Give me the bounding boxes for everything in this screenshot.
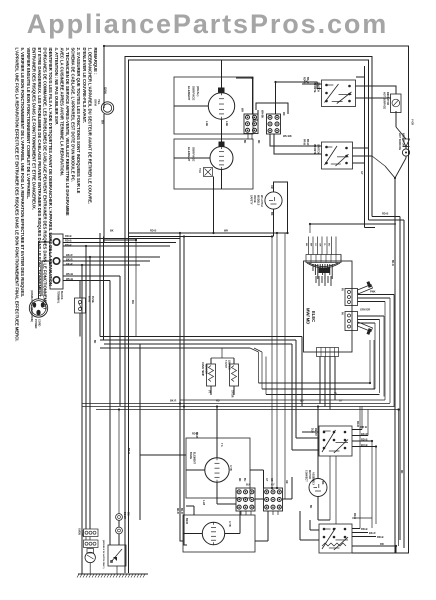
wire SU1 to CN2 link bbox=[256, 103, 288, 114]
svg-text:WH-B: WH-B bbox=[66, 277, 73, 281]
svg-text:BU: BU bbox=[243, 478, 245, 482]
svg-text:PR-B: PR-B bbox=[303, 139, 306, 145]
svg-text:RD: RD bbox=[380, 542, 384, 546]
svg-text:GRN/: GRN/ bbox=[94, 99, 98, 106]
svg-text:GRN: GRN bbox=[104, 87, 108, 94]
board fan-in arcs bbox=[307, 263, 340, 268]
svg-text:ASSEMBLY: ASSEMBLY bbox=[312, 472, 315, 485]
door latch switch S3 bbox=[108, 545, 126, 566]
svg-text:BK: BK bbox=[309, 505, 311, 509]
svg-text:MOTOR: MOTOR bbox=[308, 470, 311, 479]
wire broil leads bbox=[183, 533, 202, 535]
wire verticals below board bbox=[319, 357, 321, 404]
wire mid long verticals to oven grids bbox=[271, 237, 273, 489]
wire broil right link bbox=[255, 540, 268, 542]
svg-text:BK-R: BK-R bbox=[170, 400, 176, 403]
wire top/right/bottom main loop L1 bbox=[104, 46, 409, 553]
svg-text:OR: OR bbox=[285, 480, 287, 484]
svg-text:RD-B: RD-B bbox=[356, 421, 359, 427]
svg-text:BK-R: BK-R bbox=[306, 139, 309, 145]
indicator lamp D1 bbox=[403, 139, 410, 147]
svg-text:RD-B: RD-B bbox=[303, 77, 306, 83]
wire run y233 pair bbox=[129, 232, 288, 234]
svg-text:BU: BU bbox=[328, 243, 330, 247]
svg-text:WH-BK: WH-BK bbox=[261, 110, 264, 119]
svg-text:BK: BK bbox=[321, 481, 324, 485]
svg-text:ELEMENT: ELEMENT bbox=[187, 147, 191, 162]
svg-text:(MODELS W/ LATCH ONLY): (MODELS W/ LATCH ONLY) bbox=[102, 540, 105, 569]
svg-text:BR-B: BR-B bbox=[185, 518, 188, 524]
wire left drop bundle bbox=[85, 246, 87, 529]
oven switch SB1 bbox=[319, 426, 352, 456]
convection motor M1 bbox=[309, 479, 327, 497]
thermal limiter TL1 bbox=[204, 168, 213, 177]
svg-text:OVEN: OVEN bbox=[78, 528, 81, 535]
svg-text:TERMINAL: TERMINAL bbox=[57, 291, 60, 304]
wire diagonal bends bbox=[250, 348, 259, 352]
control board U1 MW/MD ELEC bbox=[304, 261, 353, 352]
svg-text:SWITCH: SWITCH bbox=[317, 82, 320, 92]
svg-text:HOT SURFACE: HOT SURFACE bbox=[383, 92, 386, 110]
svg-text:D'ORGANES DE COMMANDE. LES PRO: D'ORGANES DE COMMANDE. LES PROBLEMES DE … bbox=[43, 48, 48, 310]
svg-text:L2B: L2B bbox=[225, 121, 229, 126]
wire console right verticals bbox=[371, 120, 373, 217]
wires from RC1 RC2 to right bbox=[358, 294, 395, 296]
svg-text:BU: BU bbox=[300, 400, 304, 403]
svg-text:BLOCK: BLOCK bbox=[60, 291, 63, 300]
board bottom terminal strip bbox=[317, 348, 339, 357]
wire SB1 right stubs and labels bbox=[352, 429, 362, 431]
wire vertical x136 bbox=[135, 240, 137, 337]
wire bundle bends down bbox=[309, 224, 311, 233]
wire SB2 right stubs bbox=[352, 528, 360, 530]
svg-text:SURFACE: SURFACE bbox=[192, 86, 196, 100]
wire SV1 bottom bbox=[273, 209, 275, 236]
svg-text:BK: BK bbox=[270, 212, 273, 216]
svg-text:4-LB: 4-LB bbox=[202, 500, 205, 505]
infinite switch SW2 bbox=[322, 142, 353, 169]
svg-text:SAFETY: SAFETY bbox=[250, 195, 253, 205]
svg-text:WH: WH bbox=[241, 108, 244, 112]
wire mid verticals x292 bbox=[291, 344, 293, 406]
oven lamp connectors bbox=[84, 529, 99, 537]
bake element box bbox=[186, 438, 250, 498]
oven switch SB2 bbox=[319, 524, 352, 553]
wire left vertical GRN bbox=[103, 46, 105, 108]
wire merge diagonals into x395 bbox=[395, 158, 406, 178]
wire ground bar links bbox=[81, 573, 83, 574]
svg-text:AppliancePartsPros.com: AppliancePartsPros.com bbox=[27, 9, 388, 39]
svg-text:RD-B: RD-B bbox=[361, 438, 368, 442]
svg-text:VALVE: VALVE bbox=[253, 195, 256, 203]
svg-text:DOOR: DOOR bbox=[123, 512, 125, 519]
svg-text:SENSOR: SENSOR bbox=[204, 364, 207, 374]
wire TB to power cord bbox=[39, 242, 51, 299]
svg-text:BK-R: BK-R bbox=[66, 253, 73, 257]
wire band verticals feed bbox=[258, 352, 260, 383]
svg-text:BK-R: BK-R bbox=[361, 432, 368, 436]
wire SB2 left bbox=[310, 529, 319, 531]
thermal fuse R2 bbox=[230, 364, 239, 386]
svg-text:RD B: RD B bbox=[361, 425, 367, 429]
ground connector GRN/YEL cabinet bbox=[101, 102, 113, 114]
svg-text:WH: WH bbox=[224, 230, 228, 233]
wire SB1 left bbox=[302, 431, 319, 433]
junction dots bbox=[103, 45, 105, 47]
wire HSI1 bottom diagonal to indicator bbox=[395, 111, 397, 127]
surface element box E2 bbox=[174, 139, 253, 189]
svg-text:(CONDUIT D'ALIMENTATION): (CONDUIT D'ALIMENTATION) bbox=[30, 290, 33, 322]
wire bake box left bbox=[140, 454, 186, 456]
svg-text:OVEN TEMP: OVEN TEMP bbox=[201, 362, 204, 376]
svg-text:BK: BK bbox=[243, 140, 245, 144]
svg-text:LIMITER: LIMITER bbox=[227, 360, 230, 370]
bake element E3 bbox=[205, 458, 229, 482]
svg-text:INFINITE: INFINITE bbox=[313, 144, 316, 155]
svg-text:D'ENLEVER LE COUVRE-FILS AVANT: D'ENLEVER LE COUVRE-FILS AVANT. bbox=[82, 48, 87, 123]
svg-text:RD: RD bbox=[257, 140, 259, 144]
svg-text:MAXI: MAXI bbox=[88, 296, 91, 303]
wire E2 leads bbox=[221, 139, 223, 147]
wire bundle right horizontals bbox=[372, 216, 400, 218]
svg-text:C-YB: C-YB bbox=[228, 521, 230, 527]
wire bake bottom to grid bbox=[216, 498, 218, 504]
svg-text:SURFACE: SURFACE bbox=[192, 147, 196, 161]
svg-text:MW/ MD: MW/ MD bbox=[306, 308, 311, 324]
terminal block TB bbox=[50, 234, 63, 289]
svg-text:L1B: L1B bbox=[205, 121, 209, 126]
svg-text:RD-B: RD-B bbox=[361, 527, 368, 531]
svg-text:BK-R: BK-R bbox=[127, 448, 130, 454]
svg-text:YEL: YEL bbox=[97, 99, 101, 105]
svg-text:GY: GY bbox=[271, 484, 275, 487]
chassis ground bar bbox=[78, 573, 148, 575]
svg-text:REMARQUE :: REMARQUE : bbox=[93, 48, 98, 75]
svg-text:OR: OR bbox=[270, 185, 273, 189]
svg-text:GRY/OR: GRY/OR bbox=[360, 308, 370, 312]
svg-text:5. VERIFIER LE BON FONCTIONNEM: 5. VERIFIER LE BON FONCTIONNEMENT DE L'A… bbox=[20, 48, 25, 298]
svg-text:CONVECT: CONVECT bbox=[305, 470, 308, 482]
svg-text:BAKE: BAKE bbox=[189, 452, 192, 459]
svg-text:OR: OR bbox=[319, 243, 321, 247]
wire CN1 bottom stubs bbox=[247, 134, 249, 140]
svg-text:GY/OR: GY/OR bbox=[231, 390, 233, 398]
wire verticals x180 bbox=[180, 233, 183, 541]
svg-text:GY: GY bbox=[314, 243, 316, 247]
svg-text:RD: RD bbox=[216, 400, 220, 403]
wire TB right leads upper bbox=[63, 238, 180, 240]
svg-text:C-YB: C-YB bbox=[229, 465, 231, 471]
svg-text:WH-B: WH-B bbox=[66, 272, 73, 276]
svg-text:INDICATOR: INDICATOR bbox=[386, 92, 389, 105]
wire CN1 to E1 box bbox=[253, 119, 258, 121]
board right connector RC1 bbox=[345, 289, 358, 306]
svg-text:L'APPAREIL UNE FOIS LA REPARAT: L'APPAREIL UNE FOIS LA REPARATION EFFECT… bbox=[15, 48, 20, 342]
wire band y400-409 main bbox=[180, 399, 385, 401]
svg-text:RD-B: RD-B bbox=[150, 230, 156, 233]
board top terminal strip bbox=[306, 255, 341, 263]
svg-text:GY: GY bbox=[360, 171, 363, 175]
fuse F1 MAXI bbox=[75, 298, 86, 313]
svg-text:OR: OR bbox=[270, 478, 272, 482]
svg-text:ENTRAINER DES RISQUES DANS LE: ENTRAINER DES RISQUES DANS LE FONCTIONNE… bbox=[31, 48, 36, 210]
svg-text:RD-B: RD-B bbox=[65, 243, 72, 247]
svg-text:2. S'ASSURER QUE TOUTES LES FO: 2. S'ASSURER QUE TOUTES LES FONCTIONS SO… bbox=[76, 48, 81, 194]
svg-text:ELEMENT: ELEMENT bbox=[193, 452, 196, 464]
svg-text:(DUAL): (DUAL) bbox=[196, 86, 200, 96]
wire CN2 bottom stubs to SW2 bbox=[270, 134, 322, 146]
connector G2 bbox=[264, 488, 283, 511]
wire SB1 to SB2 bbox=[335, 456, 337, 524]
svg-text:VERIFIER ENSUITE LE BON FONCTI: VERIFIER ENSUITE LE BON FONCTIONNEMENT C… bbox=[26, 48, 31, 200]
svg-text:GY: GY bbox=[265, 478, 267, 482]
frame console boundary inner bbox=[129, 60, 369, 573]
svg-text:RD: RD bbox=[400, 470, 402, 474]
wire RC drops to lower band bbox=[393, 295, 395, 408]
svg-text:RD-B: RD-B bbox=[176, 508, 178, 514]
svg-text:7 A: 7 A bbox=[220, 443, 223, 447]
svg-text:POWER: POWER bbox=[34, 319, 37, 329]
svg-text:BU-B: BU-B bbox=[361, 443, 368, 447]
broil element E4 bbox=[202, 522, 224, 544]
board pin ticks bbox=[312, 264, 314, 271]
svg-text:RD: RD bbox=[238, 478, 240, 482]
svg-text:BK-R: BK-R bbox=[391, 260, 393, 266]
svg-text:BU: BU bbox=[246, 484, 250, 487]
wire run y240 bbox=[104, 239, 136, 241]
wire into SW1 bbox=[302, 83, 322, 85]
svg-text:FUSE: FUSE bbox=[91, 296, 94, 303]
svg-text:HOT SURFACE: HOT SURFACE bbox=[398, 133, 401, 151]
svg-text:CORD: CORD bbox=[38, 319, 41, 327]
surface element E1 (dual) bbox=[208, 93, 234, 119]
wire fuse leads bbox=[79, 289, 81, 298]
wire motor leads bbox=[317, 407, 319, 479]
wire TB right leads lower bbox=[63, 275, 120, 277]
broil element box bbox=[183, 515, 255, 552]
svg-text:4. ATTENTION : NE PAS OUBLIER: 4. ATTENTION : NE PAS OUBLIER SVP. bbox=[54, 48, 59, 125]
wire grid to broil stubs bbox=[240, 511, 242, 515]
svg-text:WH BK: WH BK bbox=[283, 134, 292, 138]
wire sensor tops bbox=[211, 357, 234, 359]
wire CN2 riser bbox=[276, 82, 322, 114]
wire CN1 riser bbox=[236, 78, 253, 114]
surface element box E1 bbox=[174, 77, 253, 134]
svg-text:BK-R: BK-R bbox=[66, 258, 73, 262]
broil coil inside SB2 bbox=[322, 543, 346, 546]
infinite switch SW1 bbox=[322, 80, 356, 107]
wire stubs into board top bbox=[308, 237, 310, 255]
svg-text:BK: BK bbox=[110, 230, 114, 233]
wire SW1 to HSI1 bbox=[356, 86, 397, 94]
wire TB right leads middle bbox=[63, 256, 160, 258]
svg-text:BK-B: BK-B bbox=[180, 508, 182, 514]
svg-text:ET ETRE DANGEREUX. LES PROBLEM: ET ETRE DANGEREUX. LES PROBLEMES DE CABL… bbox=[37, 48, 42, 298]
connector G1 bbox=[236, 488, 255, 511]
svg-text:1. DEBRANCHER L'APPAREIL DU SE: 1. DEBRANCHER L'APPAREIL DU SECTEUR AVAN… bbox=[87, 48, 92, 204]
wire SV1 top loop bbox=[274, 182, 288, 233]
svg-text:W/ LATCH: W/ LATCH bbox=[260, 195, 263, 207]
svg-text:RD-B: RD-B bbox=[382, 213, 388, 216]
hot surface indicator HSI1 bbox=[391, 94, 402, 113]
power cord plug P1 bbox=[29, 299, 47, 317]
wire verticals x100 pair bbox=[99, 233, 101, 337]
note text block (French service remarks) bbox=[15, 48, 98, 342]
svg-text:3. TECHNICIEN DE SERVICE APRES: 3. TECHNICIEN DE SERVICE APRES-VENTE, VE… bbox=[65, 48, 70, 216]
wire grid links bbox=[255, 498, 264, 500]
surface element E2 bbox=[210, 147, 233, 170]
svg-text:TCO: TCO bbox=[198, 168, 201, 173]
oven temp sensor R1 bbox=[207, 364, 216, 386]
svg-text:WH: WH bbox=[131, 300, 133, 304]
oven lamp L1 bbox=[87, 549, 94, 554]
frame console boundary outer bbox=[125, 57, 372, 574]
wire vertical from TL1 bbox=[213, 177, 215, 234]
wire frame jog into SW1 top bbox=[356, 66, 365, 77]
wire SW2 right exits bbox=[353, 147, 369, 149]
svg-text:BK-R: BK-R bbox=[306, 77, 309, 83]
svg-text:SCHEMA DE CABLAGE. L'APPAREIL: SCHEMA DE CABLAGE. L'APPAREIL EST DOTE D… bbox=[71, 48, 76, 182]
wire band upper staircase bbox=[259, 382, 371, 384]
wire bake leads bbox=[216, 407, 218, 439]
svg-text:RD-B: RD-B bbox=[192, 433, 198, 436]
connector CN1 bbox=[244, 114, 258, 134]
svg-text:SWITCH: SWITCH bbox=[317, 144, 320, 154]
wire bottom corner bbox=[395, 546, 397, 553]
wire right long verticals bbox=[399, 217, 401, 541]
svg-text:LIGHT: LIGHT bbox=[81, 530, 84, 538]
svg-text:RD-B: RD-B bbox=[65, 234, 72, 238]
door latch connector circles bbox=[116, 514, 123, 521]
wire door latch bbox=[118, 520, 120, 527]
wire E1 leads bbox=[221, 60, 223, 93]
svg-text:ELEMENT: ELEMENT bbox=[187, 86, 191, 101]
svg-text:BK: BK bbox=[93, 340, 95, 344]
wire band y336 bbox=[100, 336, 302, 338]
svg-text:T-STAT: T-STAT bbox=[224, 360, 227, 369]
svg-text:Y-GR: Y-GR bbox=[411, 119, 414, 125]
svg-text:RD: RD bbox=[282, 112, 285, 116]
svg-text:BR: BR bbox=[310, 243, 312, 247]
wire right vertical x395 bbox=[394, 178, 396, 553]
svg-text:GY: GY bbox=[339, 400, 343, 403]
svg-text:PNK: PNK bbox=[370, 290, 376, 294]
safety valve SV1 (models w/ latch) bbox=[265, 192, 282, 209]
svg-text:MODELS: MODELS bbox=[257, 195, 260, 206]
svg-text:BK: BK bbox=[305, 243, 307, 247]
connector CN2 bbox=[267, 114, 281, 134]
svg-text:IDENTIFIER TOUS LES FILS A L'A: IDENTIFIER TOUS LES FILS A L'AIDE D'ETIQ… bbox=[48, 48, 53, 286]
svg-text:RD-B: RD-B bbox=[377, 535, 384, 539]
svg-text:INDICATOR: INDICATOR bbox=[401, 133, 404, 146]
wire SB1 connections bbox=[361, 407, 363, 430]
svg-text:AVEC LA CUISINIERE APRES AVOIR: AVEC LA CUISINIERE APRES AVOIR TERMINE L… bbox=[59, 48, 64, 176]
svg-text:BK-R: BK-R bbox=[66, 262, 73, 266]
svg-text:INFINITE: INFINITE bbox=[313, 82, 316, 93]
svg-text:BK-R: BK-R bbox=[369, 531, 376, 535]
svg-text:ELEC: ELEC bbox=[311, 311, 316, 322]
svg-text:RD-B: RD-B bbox=[65, 239, 72, 243]
board right connector RC2 bbox=[345, 312, 358, 331]
wire lamp drops bbox=[85, 537, 87, 541]
svg-text:YL: YL bbox=[334, 392, 338, 395]
